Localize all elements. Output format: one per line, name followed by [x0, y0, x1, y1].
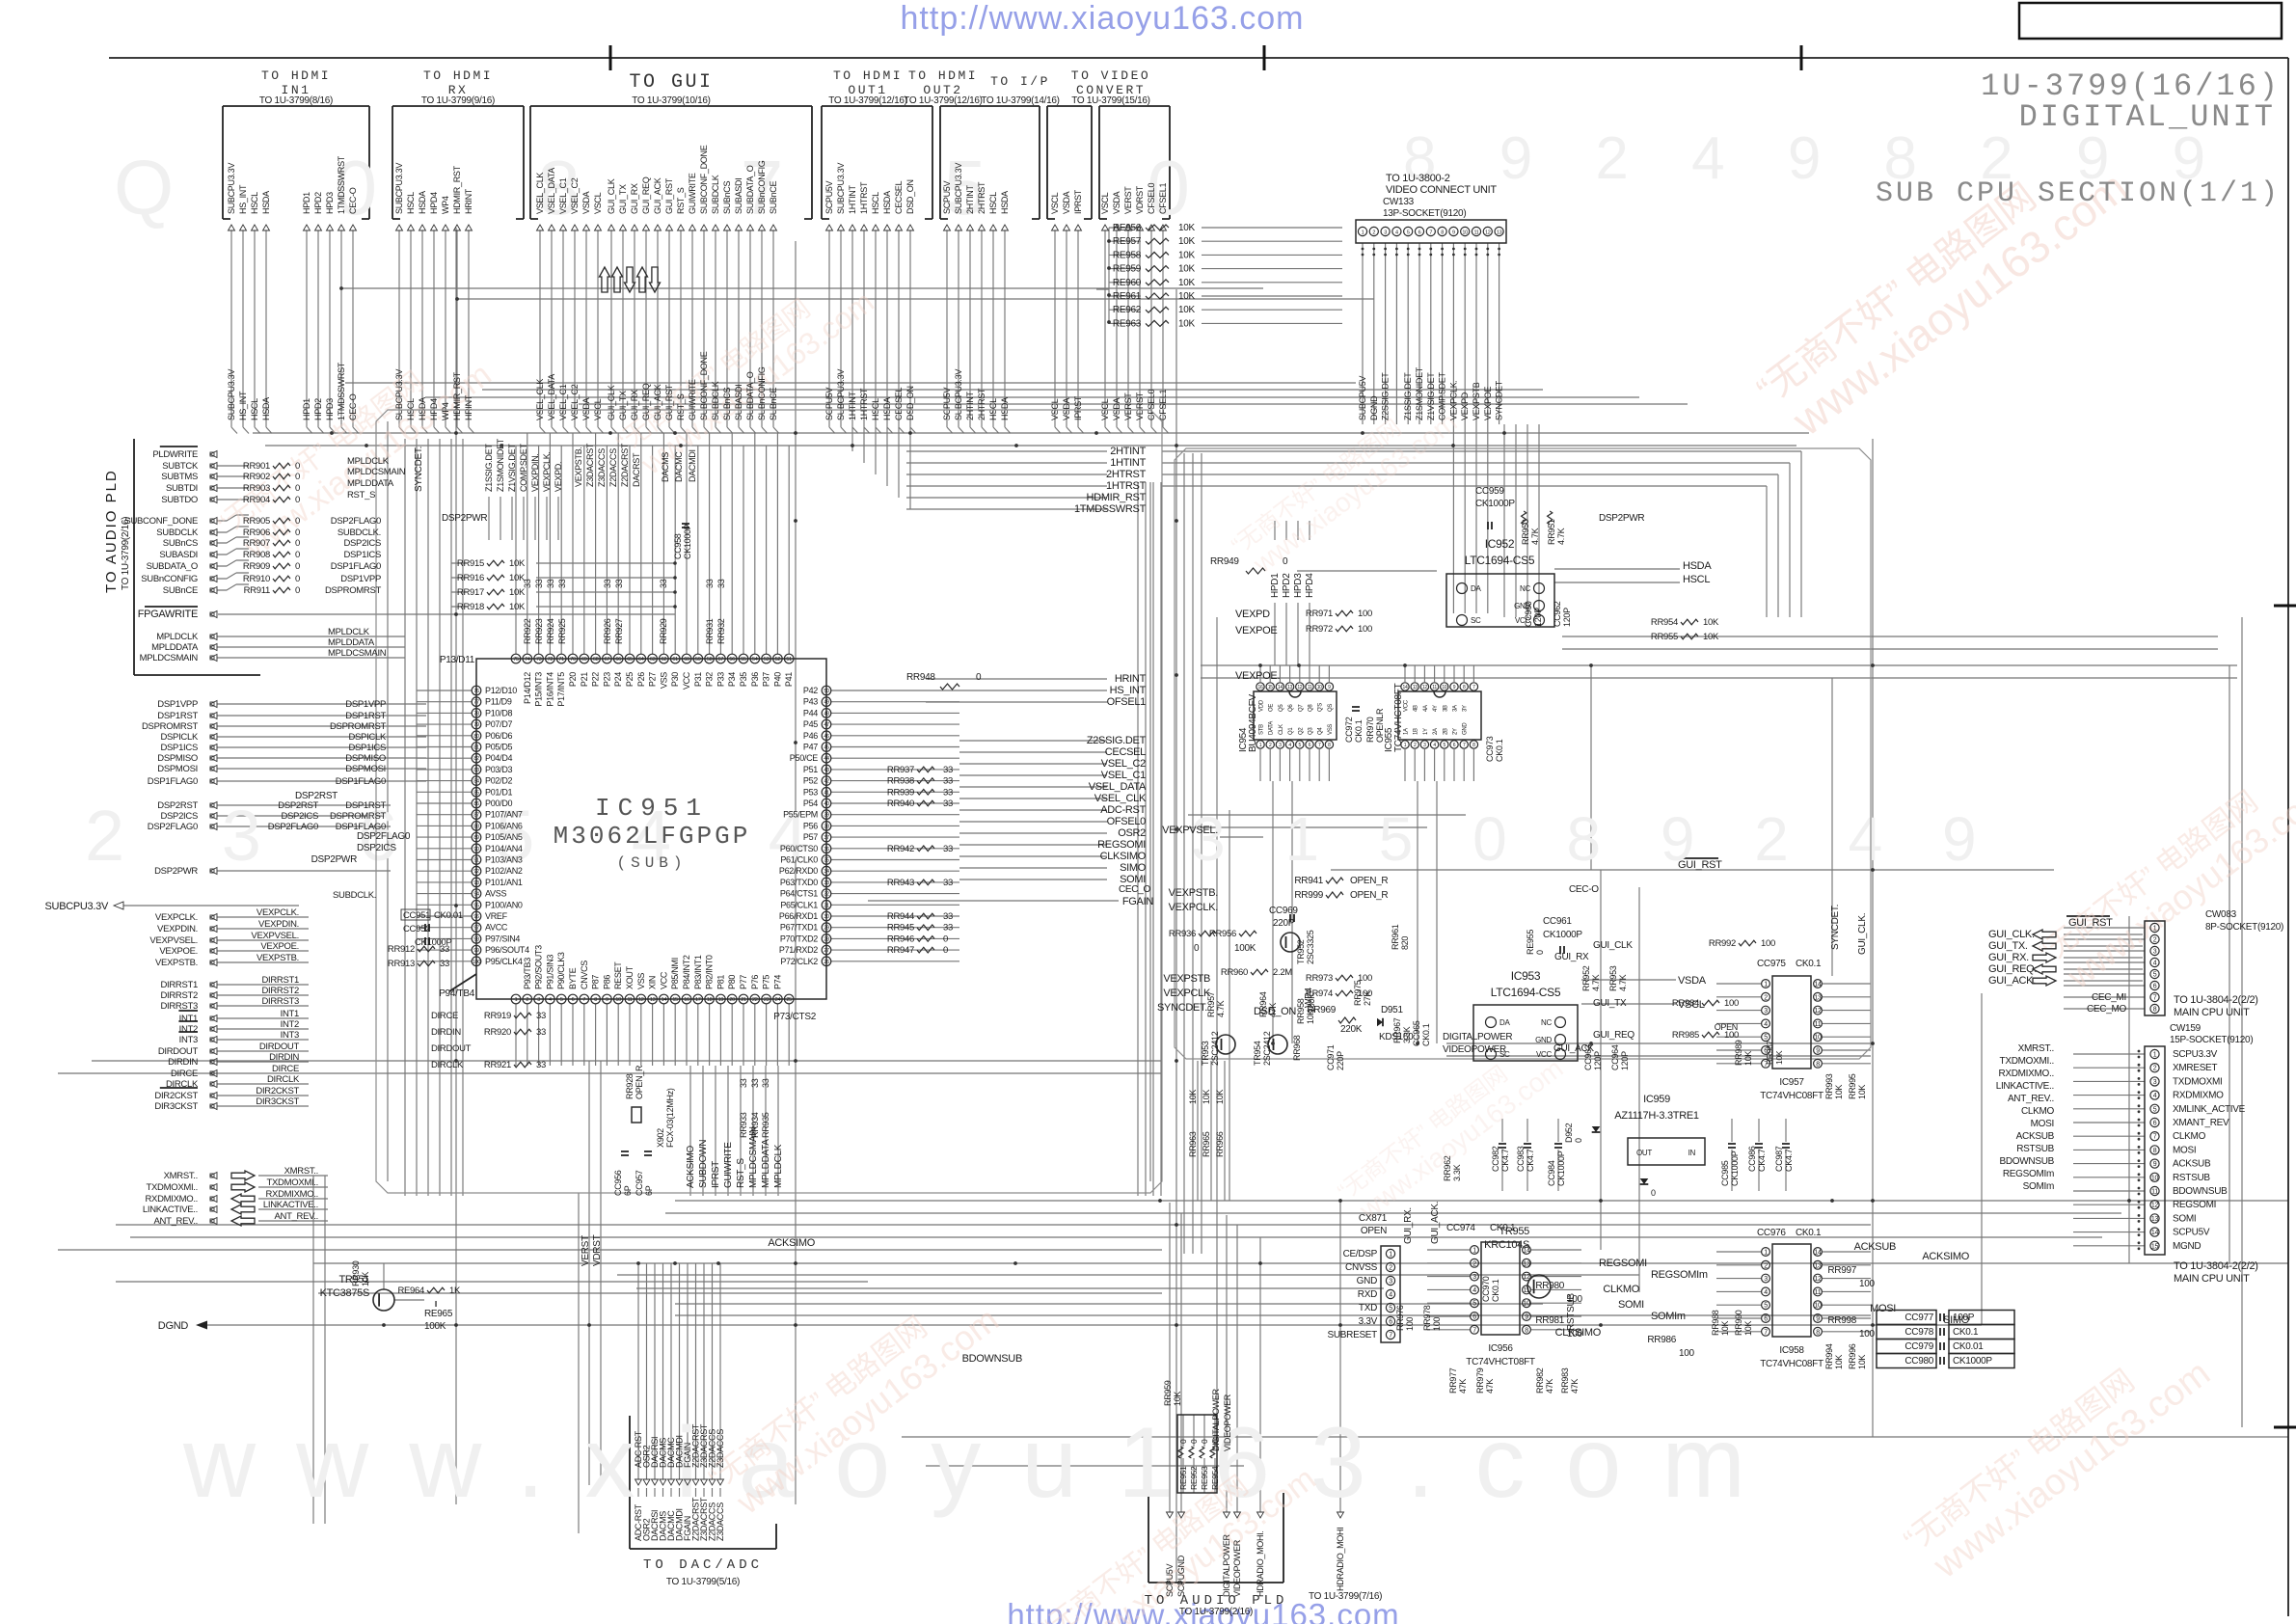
- svg-text:3B: 3B: [1443, 705, 1448, 712]
- svg-text:SCPU5V: SCPU5V: [942, 180, 952, 214]
- svg-text:33: 33: [659, 579, 668, 588]
- svg-text:LINKACTIVE..: LINKACTIVE..: [1996, 1081, 2054, 1092]
- svg-text:10K: 10K: [1857, 1085, 1867, 1099]
- svg-text:RE955: RE955: [1526, 930, 1535, 955]
- svg-text:P40: P40: [772, 672, 782, 687]
- svg-text:RR928: RR928: [625, 1073, 635, 1099]
- svg-text:12: 12: [1814, 1276, 1822, 1283]
- svg-text:1HTRST: 1HTRST: [1106, 480, 1147, 492]
- svg-text:SUB CPU SECTION(1/1): SUB CPU SECTION(1/1): [1876, 177, 2281, 210]
- svg-text:33: 33: [614, 579, 624, 588]
- svg-text:RR971: RR971: [1306, 609, 1333, 619]
- svg-text:REGSOMIm: REGSOMIm: [1651, 1269, 1708, 1281]
- svg-text:RST_S: RST_S: [347, 490, 375, 501]
- svg-text:10: 10: [1442, 685, 1446, 690]
- svg-text:CEC_MI: CEC_MI: [2092, 992, 2126, 1003]
- svg-text:SCPU5V: SCPU5V: [824, 180, 834, 214]
- svg-text:P95/CLK4: P95/CLK4: [485, 957, 523, 966]
- svg-text:0: 0: [295, 495, 300, 505]
- svg-text:P42: P42: [803, 686, 818, 695]
- svg-text:DACMS: DACMS: [661, 452, 670, 482]
- svg-text:VEXPDIN.: VEXPDIN.: [258, 919, 299, 930]
- svg-text:OPEN_R: OPEN_R: [1350, 876, 1388, 886]
- svg-text:CC986: CC986: [1747, 1146, 1757, 1172]
- svg-text:GUI_TX: GUI_TX: [1593, 998, 1627, 1009]
- svg-text:RR916: RR916: [457, 573, 484, 583]
- svg-text:RR909: RR909: [243, 561, 270, 572]
- svg-text:CX871: CX871: [1359, 1213, 1388, 1224]
- svg-text:HSCL: HSCL: [1683, 574, 1710, 585]
- svg-text:P66/RXD1: P66/RXD1: [779, 911, 818, 921]
- svg-text:43: 43: [824, 768, 829, 773]
- svg-text:8P-SOCKET(9120): 8P-SOCKET(9120): [2205, 922, 2283, 933]
- svg-text:CK0.1: CK0.1: [1490, 1223, 1516, 1233]
- svg-text:ACKSIMO: ACKSIMO: [768, 1237, 815, 1249]
- svg-text:SCPU5V: SCPU5V: [824, 387, 834, 420]
- svg-text:12: 12: [1422, 685, 1427, 690]
- svg-text:RR911: RR911: [244, 585, 270, 596]
- svg-text:RR996: RR996: [1848, 1343, 1857, 1369]
- svg-text:VEXPD: VEXPD: [1460, 392, 1470, 420]
- svg-text:1HTINT: 1HTINT: [1110, 457, 1146, 469]
- svg-text:67: 67: [605, 657, 610, 663]
- svg-text:DATA: DATA: [1269, 721, 1275, 735]
- svg-text:OSR2: OSR2: [1118, 827, 1146, 839]
- svg-text:3: 3: [1764, 1276, 1768, 1283]
- svg-text:12: 12: [2151, 1203, 2159, 1209]
- svg-text:10K: 10K: [1743, 1321, 1753, 1336]
- svg-text:RSTSUB: RSTSUB: [2173, 1173, 2210, 1183]
- svg-text:DIRRST3: DIRRST3: [261, 996, 299, 1007]
- svg-text:HSDA: HSDA: [882, 397, 892, 420]
- svg-text:GND: GND: [1357, 1276, 1377, 1286]
- svg-text:2: 2: [1372, 230, 1375, 236]
- svg-text:GUI_RST: GUI_RST: [2068, 917, 2113, 929]
- svg-text:TO 1U-3804-2(2/2): TO 1U-3804-2(2/2): [2174, 994, 2258, 1006]
- svg-text:HDRADIO_MOHI: HDRADIO_MOHI: [1336, 1528, 1345, 1591]
- svg-text:P47: P47: [803, 743, 818, 752]
- svg-text:5: 5: [1299, 743, 1302, 748]
- svg-text:SCPUGND: SCPUGND: [1176, 1555, 1186, 1597]
- svg-text:DIRCE: DIRCE: [171, 1069, 198, 1079]
- svg-text:VCC: VCC: [659, 971, 668, 989]
- svg-text:DSP1FLAG0: DSP1FLAG0: [331, 561, 381, 572]
- svg-text:WP4: WP4: [441, 196, 450, 214]
- svg-text:0: 0: [1574, 1138, 1583, 1143]
- svg-text:SUBASDI: SUBASDI: [734, 178, 743, 214]
- svg-text:TO 1U-3799(14/16): TO 1U-3799(14/16): [981, 95, 1059, 106]
- svg-text:95: 95: [473, 903, 479, 908]
- svg-text:SUBASDI: SUBASDI: [734, 385, 743, 420]
- svg-text:ACKSUB: ACKSUB: [2016, 1131, 2055, 1142]
- svg-text:TO HDMI: TO HDMI: [423, 68, 493, 83]
- svg-text:ADC-RST: ADC-RST: [1100, 804, 1146, 816]
- svg-text:RR960: RR960: [1221, 967, 1248, 978]
- svg-text:SYNCDET: SYNCDET: [1495, 380, 1504, 420]
- svg-text:HSDA: HSDA: [882, 191, 892, 214]
- svg-text:DSP2ICS: DSP2ICS: [357, 843, 396, 853]
- svg-text:P83/INT1: P83/INT1: [693, 955, 703, 989]
- svg-text:HPD2: HPD2: [313, 398, 323, 420]
- svg-text:CC980: CC980: [1904, 1356, 1933, 1367]
- svg-text:0: 0: [295, 585, 300, 596]
- svg-text:100: 100: [1432, 1317, 1442, 1331]
- svg-text:33: 33: [536, 1060, 546, 1070]
- svg-text:7: 7: [582, 997, 585, 1003]
- svg-text:BDOWNSUB: BDOWNSUB: [2000, 1156, 2055, 1167]
- svg-text:Q 0 8 7 5 0: Q 0 8 7 5 0: [114, 145, 1259, 230]
- svg-text:VSDA: VSDA: [581, 191, 591, 214]
- svg-text:CC964: CC964: [1610, 1044, 1620, 1070]
- svg-text:Z3DACCS: Z3DACCS: [597, 448, 607, 487]
- svg-text:DSP1VPP: DSP1VPP: [157, 699, 198, 710]
- svg-text:RR915: RR915: [457, 558, 484, 569]
- svg-text:0: 0: [295, 550, 300, 560]
- svg-text:4: 4: [1389, 1292, 1392, 1299]
- svg-text:DSP2FLAG0: DSP2FLAG0: [331, 516, 381, 527]
- svg-text:10K: 10K: [1834, 1085, 1844, 1099]
- svg-text:6: 6: [2153, 984, 2157, 990]
- svg-text:RR984: RR984: [1672, 998, 1699, 1009]
- svg-text:1: 1: [2153, 926, 2157, 933]
- svg-text:10: 10: [1523, 1301, 1530, 1308]
- svg-text:GUI_TX.: GUI_TX.: [1988, 940, 2028, 952]
- svg-text:39: 39: [824, 813, 829, 819]
- svg-text:VSEL_CLK: VSEL_CLK: [535, 173, 545, 214]
- svg-text:Q3: Q3: [1309, 727, 1314, 735]
- svg-text:99: 99: [473, 948, 479, 954]
- svg-text:6: 6: [1389, 1319, 1392, 1326]
- svg-text:Q8: Q8: [1309, 704, 1314, 712]
- svg-text:12: 12: [1297, 685, 1302, 690]
- svg-text:CC961: CC961: [1543, 916, 1572, 927]
- svg-text:P80: P80: [727, 975, 737, 989]
- svg-text:SUBDATA_O: SUBDATA_O: [745, 165, 755, 214]
- svg-text:CLKMO: CLKMO: [1603, 1284, 1639, 1295]
- svg-text:Q4: Q4: [1318, 727, 1324, 735]
- svg-text:Q2: Q2: [1298, 727, 1304, 735]
- svg-text:9: 9: [1328, 685, 1331, 690]
- svg-text:HSCL: HSCL: [871, 192, 880, 214]
- svg-text:P15/INT3: P15/INT3: [534, 672, 544, 707]
- svg-text:HPD2: HPD2: [313, 192, 323, 214]
- svg-text:VEXPSTB.: VEXPSTB.: [155, 958, 198, 968]
- svg-text:87: 87: [473, 813, 479, 819]
- svg-text:10K: 10K: [509, 573, 526, 583]
- svg-text:CK0.1: CK0.1: [1491, 1279, 1500, 1302]
- svg-text:IC956: IC956: [1488, 1343, 1513, 1354]
- svg-text:IPRST: IPRST: [1073, 189, 1083, 214]
- svg-text:100: 100: [1567, 1329, 1583, 1340]
- svg-text:79: 79: [473, 722, 479, 728]
- svg-text:10K: 10K: [1188, 1090, 1198, 1104]
- svg-text:MPLDCSMAIN: MPLDCSMAIN: [748, 1126, 759, 1188]
- svg-text:HDMIR_RST: HDMIR_RST: [452, 165, 462, 214]
- svg-text:OPEN_R: OPEN_R: [635, 1065, 644, 1099]
- svg-text:100: 100: [1724, 998, 1739, 1009]
- svg-text:CECSEL: CECSEL: [894, 180, 904, 214]
- svg-text:RR932: RR932: [716, 618, 726, 644]
- svg-text:SOMIm: SOMIm: [1651, 1311, 1686, 1322]
- svg-text:VEXPCLK.: VEXPCLK.: [542, 451, 552, 492]
- svg-text:P100/AN0: P100/AN0: [485, 900, 523, 909]
- svg-text:P31: P31: [693, 672, 703, 687]
- svg-text:RE951: RE951: [1178, 1466, 1188, 1490]
- svg-text:45: 45: [824, 745, 829, 751]
- svg-text:RR929: RR929: [659, 618, 668, 644]
- svg-text:71: 71: [558, 657, 564, 663]
- svg-text:DIRRST2: DIRRST2: [160, 990, 198, 1001]
- svg-text:FPGAWRITE: FPGAWRITE: [138, 609, 198, 620]
- svg-text:37: 37: [824, 835, 829, 841]
- svg-text:P94/TB4: P94/TB4: [439, 988, 475, 999]
- svg-text:VSEL_C2: VSEL_C2: [1101, 758, 1146, 770]
- svg-text:8: 8: [594, 997, 597, 1003]
- svg-text:BDOWNSUB: BDOWNSUB: [2173, 1186, 2228, 1197]
- svg-text:TO 1U-3804-2(2/2): TO 1U-3804-2(2/2): [2174, 1260, 2258, 1272]
- svg-text:27: 27: [824, 948, 829, 954]
- svg-text:DIR2CKST: DIR2CKST: [256, 1086, 299, 1096]
- svg-text:VDD: VDD: [1259, 699, 1265, 712]
- svg-text:10: 10: [615, 997, 621, 1003]
- svg-text:16: 16: [1258, 685, 1263, 690]
- svg-text:96: 96: [473, 914, 479, 920]
- svg-text:IC959: IC959: [1643, 1094, 1670, 1105]
- svg-text:DSP1FLAG0: DSP1FLAG0: [336, 776, 386, 787]
- svg-text:WP4: WP4: [441, 402, 450, 420]
- svg-text:25: 25: [786, 997, 792, 1003]
- svg-text:820: 820: [1400, 936, 1410, 950]
- svg-text:19: 19: [718, 997, 724, 1003]
- svg-text:89: 89: [473, 835, 479, 841]
- svg-text:SUBCPU3.3V: SUBCPU3.3V: [836, 163, 846, 214]
- svg-text:CK0.1: CK0.1: [1796, 1228, 1822, 1238]
- svg-text:RR910: RR910: [243, 574, 270, 584]
- svg-text:GUI_ACK.: GUI_ACK.: [1988, 975, 2036, 987]
- svg-text:Q7: Q7: [1298, 704, 1304, 712]
- svg-text:CC982: CC982: [1491, 1146, 1500, 1172]
- svg-text:SUBnCS: SUBnCS: [722, 387, 732, 420]
- svg-text:HRINT: HRINT: [464, 188, 473, 214]
- svg-text:3: 3: [537, 997, 540, 1003]
- svg-text:9: 9: [606, 997, 608, 1003]
- svg-text:100: 100: [1567, 1294, 1583, 1305]
- svg-text:SUBRESET: SUBRESET: [1327, 1330, 1377, 1340]
- svg-text:32: 32: [824, 892, 829, 898]
- svg-text:11: 11: [1524, 1287, 1530, 1294]
- svg-text:13: 13: [1814, 994, 1822, 1001]
- svg-text:MPLDCSMAIN: MPLDCSMAIN: [140, 653, 199, 663]
- svg-text:3: 3: [2153, 1079, 2157, 1086]
- svg-text:42: 42: [824, 779, 829, 785]
- svg-text:13: 13: [1413, 685, 1418, 690]
- svg-text:DSP1RST: DSP1RST: [345, 800, 386, 811]
- svg-text:SUBCPU3.3V: SUBCPU3.3V: [394, 369, 404, 420]
- svg-text:DACMDI: DACMDI: [688, 449, 697, 482]
- svg-text:LINKACTIVE..: LINKACTIVE..: [143, 1204, 198, 1215]
- svg-text:MAIN CPU UNIT: MAIN CPU UNIT: [2174, 1007, 2250, 1018]
- svg-text:10: 10: [2151, 1175, 2159, 1181]
- svg-text:DSPMOSI: DSPMOSI: [157, 764, 198, 774]
- svg-text:RR997: RR997: [1827, 1265, 1856, 1276]
- svg-text:VSEL_CLK: VSEL_CLK: [535, 379, 545, 420]
- svg-text:HSDA: HSDA: [1000, 191, 1010, 214]
- svg-text:P22: P22: [591, 672, 601, 687]
- svg-text:13P-SOCKET(9120): 13P-SOCKET(9120): [1383, 208, 1466, 219]
- svg-text:SUBCPU3.3V: SUBCPU3.3V: [227, 163, 236, 214]
- svg-text:10K: 10K: [1703, 617, 1719, 628]
- svg-text:VERST: VERST: [1123, 186, 1133, 214]
- svg-text:P106/AN6: P106/AN6: [485, 821, 523, 830]
- svg-text:2: 2: [1414, 743, 1417, 748]
- svg-text:2HTRST: 2HTRST: [977, 388, 986, 420]
- svg-text:6: 6: [572, 997, 575, 1003]
- svg-text:33: 33: [943, 798, 953, 809]
- svg-text:4.7K: 4.7K: [1556, 528, 1566, 545]
- svg-text:P30: P30: [670, 672, 680, 687]
- svg-text:10K: 10K: [1306, 1010, 1315, 1024]
- svg-text:SUBnCONFIG: SUBnCONFIG: [757, 366, 767, 420]
- svg-text:29: 29: [824, 926, 829, 932]
- svg-text:RR968: RR968: [1292, 1035, 1302, 1061]
- svg-text:P21: P21: [580, 672, 589, 687]
- svg-text:RR931: RR931: [705, 618, 715, 644]
- svg-text:DSP2RST: DSP2RST: [157, 800, 198, 811]
- svg-text:1TMDSSWRST: 1TMDSSWRST: [1074, 503, 1147, 515]
- svg-text:TXDMOXMI..: TXDMOXMI..: [267, 1177, 318, 1188]
- svg-text:P74: P74: [772, 975, 782, 989]
- svg-text:SUBCPU3.3V: SUBCPU3.3V: [45, 901, 109, 912]
- svg-text:RR912: RR912: [388, 944, 415, 955]
- svg-text:38: 38: [824, 824, 829, 829]
- svg-text:REGSOMIm: REGSOMIm: [2003, 1169, 2054, 1179]
- svg-text:14: 14: [1403, 685, 1408, 690]
- svg-text:VERST: VERST: [1123, 392, 1133, 420]
- svg-text:7: 7: [1389, 1333, 1392, 1340]
- svg-text:100: 100: [1358, 609, 1372, 619]
- svg-text:14: 14: [662, 997, 667, 1003]
- svg-text:83: 83: [473, 768, 479, 773]
- svg-text:DIRDOUT: DIRDOUT: [431, 1043, 472, 1054]
- svg-text:VIDEOPOWER: VIDEOPOWER: [1232, 1539, 1242, 1597]
- svg-text:RR966: RR966: [1215, 1131, 1225, 1157]
- svg-text:SUBCPU3.3V: SUBCPU3.3V: [954, 163, 963, 214]
- svg-text:1: 1: [1362, 230, 1364, 236]
- svg-text:RR998: RR998: [1827, 1315, 1856, 1326]
- svg-text:100: 100: [1405, 1317, 1415, 1331]
- svg-text:9: 9: [1525, 1314, 1528, 1321]
- svg-text:33: 33: [943, 878, 953, 888]
- svg-text:P36: P36: [750, 672, 760, 687]
- svg-text:6P: 6P: [644, 1185, 654, 1196]
- svg-text:TO 1U-3799(9/16): TO 1U-3799(9/16): [421, 95, 495, 106]
- svg-text:Z2SSIG.DET: Z2SSIG.DET: [1381, 372, 1391, 420]
- svg-text:RR919: RR919: [484, 1011, 511, 1021]
- svg-text:DSPROMRST: DSPROMRST: [330, 811, 386, 822]
- svg-text:33: 33: [536, 1011, 546, 1021]
- svg-text:RR980: RR980: [1535, 1281, 1564, 1291]
- svg-text:8: 8: [1816, 1061, 1820, 1068]
- svg-text:P26: P26: [636, 672, 646, 687]
- svg-text:P107/AN7: P107/AN7: [485, 810, 523, 820]
- svg-text:11: 11: [2151, 1189, 2158, 1196]
- svg-text:VSDA: VSDA: [1062, 191, 1071, 214]
- svg-text:RR918: RR918: [457, 602, 484, 612]
- svg-text:2Y: 2Y: [1453, 728, 1459, 735]
- svg-text:SUBTMS: SUBTMS: [161, 472, 198, 482]
- svg-text:DACMC: DACMC: [674, 451, 684, 482]
- svg-text:HSDA: HSDA: [1000, 397, 1010, 420]
- svg-text:SOMI: SOMI: [1618, 1299, 1644, 1311]
- svg-text:P55/EPM: P55/EPM: [783, 810, 818, 820]
- svg-text:RR965: RR965: [1202, 1131, 1211, 1157]
- svg-text:RR947: RR947: [887, 945, 914, 956]
- svg-text:64: 64: [638, 657, 644, 663]
- svg-text:RR972: RR972: [1306, 624, 1333, 635]
- svg-text:Z3DACCS: Z3DACCS: [716, 1429, 725, 1468]
- svg-text:HSCL: HSCL: [250, 192, 259, 214]
- svg-text:RR973: RR973: [1306, 973, 1333, 984]
- svg-text:DIRCLK: DIRCLK: [267, 1074, 300, 1085]
- svg-text:CK0.1: CK0.1: [1421, 1023, 1431, 1046]
- svg-text:13: 13: [1814, 1262, 1822, 1269]
- svg-text:MPLDCSMAIN: MPLDCSMAIN: [328, 648, 387, 659]
- svg-text:SYNCDET.: SYNCDET.: [1157, 1002, 1207, 1014]
- svg-text:RR993: RR993: [1824, 1073, 1834, 1099]
- svg-text:1HTRST: 1HTRST: [859, 181, 869, 214]
- svg-text:DIRDOUT: DIRDOUT: [158, 1046, 199, 1057]
- svg-text:HSDA: HSDA: [418, 191, 427, 214]
- svg-text:HPD1: HPD1: [302, 192, 311, 214]
- svg-text:48: 48: [824, 711, 829, 717]
- svg-text:RR989: RR989: [1734, 1040, 1743, 1066]
- svg-text:P87: P87: [591, 975, 601, 989]
- svg-text:10K: 10K: [1202, 1090, 1211, 1104]
- svg-text:11: 11: [1432, 685, 1437, 690]
- svg-text:SUBDCLK: SUBDCLK: [711, 175, 720, 214]
- svg-text:GUI_TX: GUI_TX: [618, 184, 628, 214]
- svg-text:CFSEL0: CFSEL0: [1147, 182, 1156, 214]
- svg-text:70: 70: [570, 657, 576, 663]
- svg-text:0: 0: [1200, 1439, 1209, 1444]
- svg-text:SUBCPU3.3V: SUBCPU3.3V: [954, 369, 963, 420]
- svg-text:RR995: RR995: [1848, 1073, 1857, 1099]
- svg-text:CFSEL1: CFSEL1: [1158, 182, 1168, 214]
- svg-text:CC979: CC979: [1904, 1341, 1933, 1352]
- svg-text:0: 0: [1194, 943, 1200, 954]
- svg-text:P82/INT0: P82/INT0: [705, 955, 715, 989]
- svg-text:CECSEL: CECSEL: [1105, 746, 1146, 758]
- svg-text:10K: 10K: [509, 558, 526, 569]
- svg-text:SUBDCLK: SUBDCLK: [711, 381, 720, 420]
- svg-text:GUI_RX: GUI_RX: [630, 390, 639, 420]
- svg-text:58: 58: [707, 657, 713, 663]
- svg-text:Z1VSIG.DET: Z1VSIG.DET: [1426, 372, 1436, 420]
- svg-text:RE960: RE960: [1113, 278, 1142, 288]
- svg-text:VIDEOPOWER: VIDEOPOWER: [1223, 1394, 1232, 1451]
- svg-text:RST_S: RST_S: [676, 187, 686, 214]
- svg-text:15: 15: [2151, 1243, 2159, 1250]
- svg-text:HPD3: HPD3: [325, 192, 335, 214]
- svg-text:18: 18: [707, 997, 713, 1003]
- svg-text:100K: 100K: [1234, 943, 1256, 954]
- svg-text:KTC3875S: KTC3875S: [320, 1287, 369, 1299]
- svg-text:MPLDCLK: MPLDCLK: [156, 632, 199, 642]
- svg-text:P10/D8: P10/D8: [485, 708, 513, 717]
- svg-text:8: 8: [1816, 1329, 1820, 1336]
- svg-text:47K: 47K: [1268, 1003, 1278, 1017]
- svg-text:P27: P27: [648, 672, 658, 687]
